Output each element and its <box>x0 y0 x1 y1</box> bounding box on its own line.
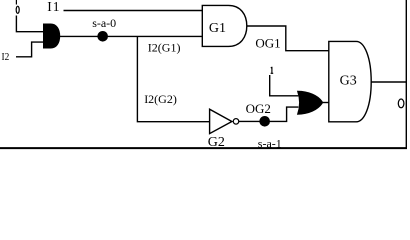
svg-text:I2(G1): I2(G1) <box>148 40 181 54</box>
svg-text:I2(G2): I2(G2) <box>144 92 177 106</box>
gate G1 AND outline <box>202 5 247 46</box>
node I0 value label "0" <box>16 6 19 13</box>
wire OG1 from G1 output down to G3 top input <box>247 26 329 51</box>
wire I0 stub from top edge <box>15 0 17 5</box>
svg-text:s-a-0: s-a-0 <box>92 16 116 30</box>
wire I0 vertical then horizontal into gate <box>16 16 44 32</box>
wire G2 output to corner <box>239 107 298 121</box>
gate G3 AND outline <box>329 41 371 121</box>
frame bottom border <box>0 147 407 149</box>
wire U2 output to G3 lower input <box>321 102 329 104</box>
wire I2 with step up into gate <box>16 42 44 57</box>
svg-text:OG1: OG1 <box>255 36 280 51</box>
frame right border <box>405 0 407 148</box>
wire output O from G3 to right border <box>371 81 406 83</box>
gate G2 inverter triangle <box>210 109 232 133</box>
output O label <box>398 99 404 108</box>
node OG2 fault dot <box>259 116 270 127</box>
wire junction branch down to G2 <box>137 36 209 121</box>
wire constant 1 into OR gate <box>270 75 299 96</box>
gate U1 filled AND (inputs 0, I2) <box>44 24 60 48</box>
svg-text:I2: I2 <box>2 52 10 64</box>
svg-text:G1: G1 <box>209 21 226 36</box>
wire I1 to G1 top input <box>64 10 203 12</box>
node s-a-0 fault dot <box>97 31 108 42</box>
gate U2 filled OR (inputs 1, OG2) <box>298 91 323 114</box>
wire U1 output to G1 lower input <box>60 35 203 37</box>
node constant 1 label <box>271 67 274 74</box>
gate G2 inverter bubble <box>233 119 239 125</box>
svg-text:OG2: OG2 <box>246 101 271 116</box>
svg-text:G3: G3 <box>340 73 357 88</box>
svg-text:I1: I1 <box>47 0 60 14</box>
